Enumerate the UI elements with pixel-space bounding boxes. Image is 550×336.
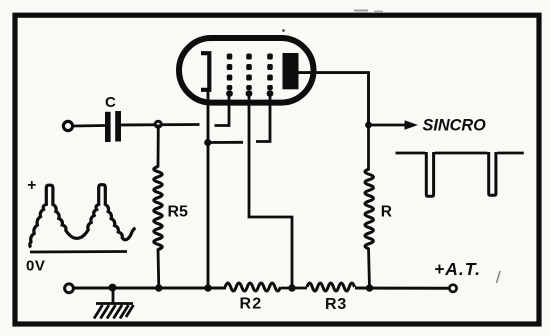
- resistor R: [365, 169, 373, 249]
- wire input to capacitor: [73, 124, 105, 127]
- node grid G1 pin blob: [226, 90, 233, 97]
- grid G2 dots: [246, 54, 252, 91]
- wire speck marks (scan artifacts): [282, 29, 285, 32]
- ground: [94, 288, 134, 319]
- node R bottom junction: [366, 284, 373, 291]
- node ground junction: [109, 284, 117, 292]
- cathode K: [201, 53, 209, 90]
- wire R3 to +A.T. terminal: [355, 287, 449, 290]
- grid G1 dots: [227, 54, 233, 91]
- svg-text:SINCRO: SINCRO: [423, 117, 487, 135]
- node cathode junction: [204, 139, 211, 146]
- node R5 bottom junction: [155, 284, 162, 291]
- wire 0V baseline: [30, 250, 127, 253]
- resistor R2: [225, 283, 280, 291]
- wire grid G3 lead: [256, 94, 270, 142]
- tube V1 envelope: [179, 38, 314, 103]
- node cathode bottom junction: [204, 284, 211, 291]
- wire grid G2 lead to R2-R3 junction: [249, 94, 292, 289]
- node R2-R3 junction: [288, 284, 295, 291]
- anode plate: [283, 53, 299, 89]
- wire plate lead: [298, 73, 369, 125]
- svg-text:R2: R2: [240, 295, 263, 312]
- wire bottom rail left: [74, 287, 226, 290]
- wire grid G1 lead: [215, 94, 230, 126]
- node junction C/R5: [155, 121, 161, 127]
- grid G3 dots: [267, 54, 273, 91]
- svg-text:R3: R3: [325, 296, 347, 313]
- output waveform pulse 2: [489, 152, 496, 195]
- node grid G2 pin blob: [246, 90, 253, 97]
- node plate/SINCRO junction: [365, 122, 372, 129]
- terminal +A.T.: [449, 285, 456, 292]
- wire R2 to junction: [281, 287, 307, 290]
- wire R bottom: [369, 248, 370, 288]
- output waveform baseline: [396, 152, 524, 155]
- svg-text:+: +: [27, 177, 36, 194]
- resistor R3: [307, 283, 355, 291]
- terminal ground left: [65, 284, 74, 293]
- input waveform: [30, 185, 136, 248]
- wire R top: [367, 125, 370, 170]
- resistor R5: [154, 167, 162, 250]
- wire capacitor to grid side: [121, 123, 200, 126]
- svg-text:+A.T.: +A.T.: [434, 259, 481, 279]
- svg-text:C: C: [105, 94, 116, 111]
- output waveform pulse 1: [426, 152, 433, 196]
- node grid G3 pin blob: [267, 90, 274, 97]
- svg-text:0V: 0V: [26, 257, 45, 274]
- wire cathode lead: [207, 90, 210, 288]
- capacitor C: [105, 112, 111, 142]
- svg-text:R5: R5: [168, 204, 189, 221]
- wire cathode-grid3 link: [208, 141, 243, 144]
- terminal input: [63, 121, 72, 130]
- svg-text:R: R: [381, 203, 392, 220]
- wire R5 bottom: [157, 249, 161, 289]
- wire arrow to SINCRO: [369, 124, 408, 127]
- wire R5 top: [157, 125, 160, 168]
